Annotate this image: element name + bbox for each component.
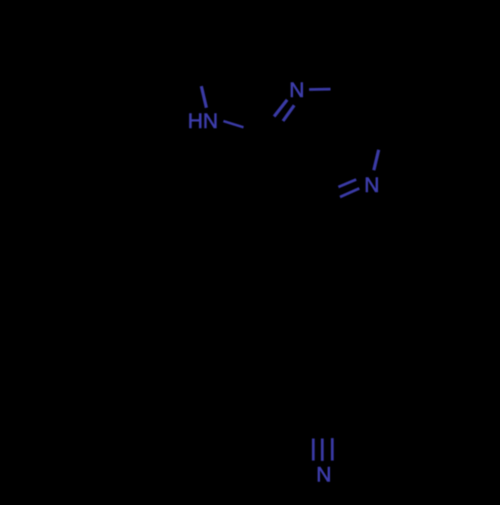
wire N(H)-CH3 bond half — [201, 86, 206, 108]
svg-text:N: N — [289, 79, 304, 102]
wire C-N4 bond half (upper right) — [374, 150, 379, 170]
wire N4=C double bond lower line — [340, 188, 359, 197]
wire nitrile triple bond line right — [331, 438, 334, 461]
svg-text:N: N — [316, 464, 331, 487]
wire N4=C double bond upper line — [338, 180, 356, 188]
wire nitrile triple bond line left — [312, 439, 315, 461]
svg-text:N: N — [364, 174, 379, 197]
wire N(H)-C2 bond half — [223, 121, 243, 127]
wire C2=N1 double bond inner line — [283, 105, 294, 121]
wire nitrile triple bond line middle — [321, 439, 324, 461]
svg-text:HN: HN — [188, 110, 218, 133]
wire N1-C bond half (horizontal) — [309, 88, 330, 91]
wire C2=N1 double bond outer line — [274, 100, 287, 117]
